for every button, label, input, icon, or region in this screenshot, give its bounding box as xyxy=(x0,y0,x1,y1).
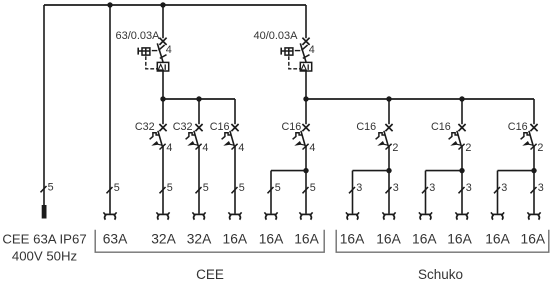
socket outlet symbol at x=163 xyxy=(156,212,169,219)
svg-text:4: 4 xyxy=(238,142,244,154)
wire MCB output x=462 xyxy=(461,146,463,213)
socket outlet symbol at x=352.5 xyxy=(346,212,359,219)
svg-text:C32: C32 xyxy=(173,121,193,133)
socket outlet symbol at x=306 xyxy=(299,212,312,219)
wire split bar x=497.5-534 xyxy=(498,170,535,172)
MCB F4 release arrow xyxy=(187,141,198,146)
wire MCB output x=534 xyxy=(533,146,535,213)
MCB F6 breaker function hook xyxy=(293,133,303,140)
conductor-count stroke at x=352.5 xyxy=(349,187,355,193)
conductor-count stroke at x=199 xyxy=(196,187,202,193)
svg-text:Schuko: Schuko xyxy=(418,267,463,281)
MCB F7 pole stroke xyxy=(386,144,392,150)
node Schuko sub-rail at x=462 xyxy=(459,96,464,101)
wire MCB output x=389 xyxy=(388,146,390,213)
MCB F3 contact cross xyxy=(159,124,166,131)
socket outlet symbol at x=389 xyxy=(382,212,395,219)
wire rail drop to MCB F9 at x=534 xyxy=(533,99,535,124)
wire MCB output x=235 xyxy=(234,146,236,213)
socket outlet symbol at x=235 xyxy=(228,212,241,219)
conductor-count stroke at x=110 xyxy=(107,187,113,193)
svg-text:16A: 16A xyxy=(294,232,319,247)
svg-text:16A: 16A xyxy=(259,232,284,247)
wire left sub-branch x=425.5 xyxy=(425,171,427,214)
conductor-count stroke at x=235 xyxy=(232,187,238,193)
group bracket Schuko xyxy=(336,230,549,252)
svg-text:16A: 16A xyxy=(376,232,401,247)
socket outlet symbol at x=425.5 xyxy=(419,212,432,219)
wire split bar x=352.5-389 xyxy=(353,170,390,172)
node CEE sub-rail at x=199 xyxy=(196,96,201,101)
svg-text:16A: 16A xyxy=(447,232,472,247)
node split junction x=389 xyxy=(386,168,391,173)
wire left sub-branch x=352.5 xyxy=(352,171,354,214)
svg-text:CEE 63A IP67: CEE 63A IP67 xyxy=(2,232,86,247)
wire split bar x=271-306 xyxy=(271,170,306,172)
svg-text:C16: C16 xyxy=(281,121,301,133)
wire left sub-branch x=497.5 xyxy=(497,171,499,214)
svg-text:63/0.03A: 63/0.03A xyxy=(115,30,160,42)
wire MCB output x=199 xyxy=(198,146,200,213)
svg-text:2: 2 xyxy=(465,142,471,154)
socket outlet symbol at x=271 xyxy=(264,212,277,219)
svg-text:5: 5 xyxy=(48,182,54,194)
svg-text:4: 4 xyxy=(166,142,172,154)
RCD F1 contact cross xyxy=(159,38,166,45)
MCB F8 switch lever xyxy=(457,131,461,146)
node junction top rail / RCD branch xyxy=(160,2,165,7)
wire 63A branch xyxy=(109,5,111,214)
RCD F2 differential release box ΔI xyxy=(300,62,311,71)
conductor-count stroke supply xyxy=(41,186,47,192)
svg-text:16A: 16A xyxy=(223,232,248,247)
conductor-count stroke at x=163 xyxy=(160,187,166,193)
MCB F9 switch lever xyxy=(529,131,533,146)
MCB F9 release arrow xyxy=(522,141,533,146)
MCB F3 pole stroke xyxy=(160,144,166,150)
RCD F1 switch lever xyxy=(157,43,163,62)
MCB F3 release arrow xyxy=(151,141,162,146)
MCB F6 switch lever xyxy=(301,131,305,146)
RCD F2 test linkage dashed xyxy=(289,51,301,69)
svg-text:3: 3 xyxy=(501,182,507,194)
MCB F7 switch lever xyxy=(384,131,388,146)
MCB F9 contact cross xyxy=(530,124,537,131)
RCD F1 breaker stroke xyxy=(160,55,167,59)
wire Schuko sub-rail xyxy=(306,98,534,100)
conductor-count stroke at x=271 xyxy=(268,187,274,193)
svg-text:5: 5 xyxy=(167,182,173,194)
wire rail drop to MCB F6 at x=306 xyxy=(305,99,307,124)
group bracket CEE xyxy=(95,230,324,252)
svg-text:3: 3 xyxy=(356,182,362,194)
svg-text:3: 3 xyxy=(429,182,435,194)
node CEE sub-rail at x=163 xyxy=(160,96,165,101)
MCB F8 contact cross xyxy=(458,124,465,131)
MCB F7 breaker function hook xyxy=(376,133,386,140)
RCD F1 differential release box ΔI xyxy=(157,62,168,71)
MCB F3 switch lever xyxy=(158,131,162,146)
node split junction x=306 xyxy=(303,168,308,173)
wire rail drop to MCB F4 at x=199 xyxy=(198,99,200,124)
socket outlet symbol at x=497.5 xyxy=(491,212,504,219)
RCD F1 test button xyxy=(138,48,150,56)
RCD F2 switch lever xyxy=(300,43,306,62)
svg-text:32A: 32A xyxy=(151,232,176,247)
MCB F7 release arrow xyxy=(377,141,388,146)
wire rail drop to MCB F5 at x=235 xyxy=(234,99,236,124)
svg-text:C16: C16 xyxy=(356,121,376,133)
RCD F1 test linkage dashed xyxy=(146,51,158,69)
node split junction x=534 xyxy=(531,168,536,173)
wire CEE sub-rail xyxy=(163,98,235,100)
svg-text:5: 5 xyxy=(275,182,281,194)
wire incomer drop to RCD F2 at x=306 xyxy=(305,5,307,38)
wire MCB output x=163 xyxy=(162,146,164,213)
wire rail drop to MCB F3 at x=163 xyxy=(162,99,164,124)
conductor-count stroke at x=534 xyxy=(531,187,537,193)
node split junction x=462 xyxy=(459,168,464,173)
MCB F8 breaker function hook xyxy=(449,133,459,140)
svg-text:3: 3 xyxy=(538,182,544,194)
conductor-count stroke at x=389 xyxy=(386,187,392,193)
svg-text:C16: C16 xyxy=(508,121,528,133)
conductor-count stroke at x=497.5 xyxy=(494,187,500,193)
socket outlet symbol at x=534 xyxy=(527,212,540,219)
wire main supply rail (top) xyxy=(44,4,306,6)
wire RCD F1 output xyxy=(162,71,164,99)
wire incomer drop to RCD F1 at x=163 xyxy=(162,5,164,38)
svg-text:16A: 16A xyxy=(340,232,365,247)
svg-text:4: 4 xyxy=(166,44,172,56)
socket outlet symbol at x=462 xyxy=(455,212,468,219)
MCB F8 pole stroke xyxy=(459,144,465,150)
svg-text:C16: C16 xyxy=(431,121,451,133)
svg-text:C32: C32 xyxy=(135,121,155,133)
svg-text:400V 50Hz: 400V 50Hz xyxy=(12,249,77,264)
wire RCD F2 output xyxy=(305,71,307,99)
svg-text:2: 2 xyxy=(392,142,398,154)
MCB F7 contact cross xyxy=(385,124,392,131)
svg-text:16A: 16A xyxy=(521,232,546,247)
svg-text:4: 4 xyxy=(202,142,208,154)
MCB F4 switch lever xyxy=(194,131,198,146)
wire supply drop left xyxy=(43,5,45,205)
svg-text:3: 3 xyxy=(393,182,399,194)
MCB F9 pole stroke xyxy=(531,144,537,150)
svg-text:5: 5 xyxy=(203,182,209,194)
wire rail drop to MCB F7 at x=389 xyxy=(388,99,390,124)
socket outlet symbol at x=110 xyxy=(103,212,116,219)
svg-text:16A: 16A xyxy=(412,232,437,247)
svg-text:4: 4 xyxy=(309,44,315,56)
svg-text:5: 5 xyxy=(310,182,316,194)
svg-text:63A: 63A xyxy=(103,232,128,247)
conductor-count stroke at x=462 xyxy=(459,187,465,193)
conductor-count stroke at x=306 xyxy=(303,187,309,193)
svg-text:40/0.03A: 40/0.03A xyxy=(253,30,298,42)
svg-text:5: 5 xyxy=(239,182,245,194)
wire left sub-branch x=271 xyxy=(270,171,272,214)
node Schuko sub-rail at x=389 xyxy=(386,96,391,101)
conductor-count stroke at x=425.5 xyxy=(422,187,428,193)
wire split bar x=425.5-462 xyxy=(426,170,463,172)
MCB F9 breaker function hook xyxy=(521,133,531,140)
svg-text:32A: 32A xyxy=(187,232,212,247)
MCB F5 pole stroke xyxy=(232,144,238,150)
MCB F5 release arrow xyxy=(223,141,234,146)
MCB F5 breaker function hook xyxy=(222,133,232,140)
MCB F6 contact cross xyxy=(302,124,309,131)
svg-text:16A: 16A xyxy=(485,232,510,247)
MCB F5 switch lever xyxy=(230,131,234,146)
RCD F2 breaker stroke xyxy=(303,55,310,59)
svg-text:5: 5 xyxy=(114,182,120,194)
MCB F3 breaker function hook xyxy=(150,133,160,140)
MCB F8 release arrow xyxy=(450,141,461,146)
node junction top rail / 63A branch xyxy=(107,2,112,7)
MCB F6 release arrow xyxy=(294,141,305,146)
wire rail drop to MCB F8 at x=462 xyxy=(461,99,463,124)
plug CEE 63A supply connector xyxy=(42,205,47,219)
svg-text:2: 2 xyxy=(537,142,543,154)
MCB F6 pole stroke xyxy=(303,144,309,150)
svg-text:4: 4 xyxy=(309,142,315,154)
MCB F4 pole stroke xyxy=(196,144,202,150)
MCB F4 breaker function hook xyxy=(186,133,196,140)
RCD F2 test button xyxy=(281,48,293,56)
RCD F2 contact cross xyxy=(302,38,309,45)
svg-text:3: 3 xyxy=(466,182,472,194)
MCB F4 contact cross xyxy=(195,124,202,131)
RCD F2 pole stroke xyxy=(302,45,308,50)
wire MCB output x=306 xyxy=(305,146,307,213)
socket outlet symbol at x=199 xyxy=(192,212,205,219)
node Schuko sub-rail at x=306 xyxy=(303,96,308,101)
RCD F1 pole stroke xyxy=(159,45,165,50)
svg-text:C16: C16 xyxy=(210,121,230,133)
svg-text:CEE: CEE xyxy=(196,267,224,281)
MCB F5 contact cross xyxy=(231,124,238,131)
